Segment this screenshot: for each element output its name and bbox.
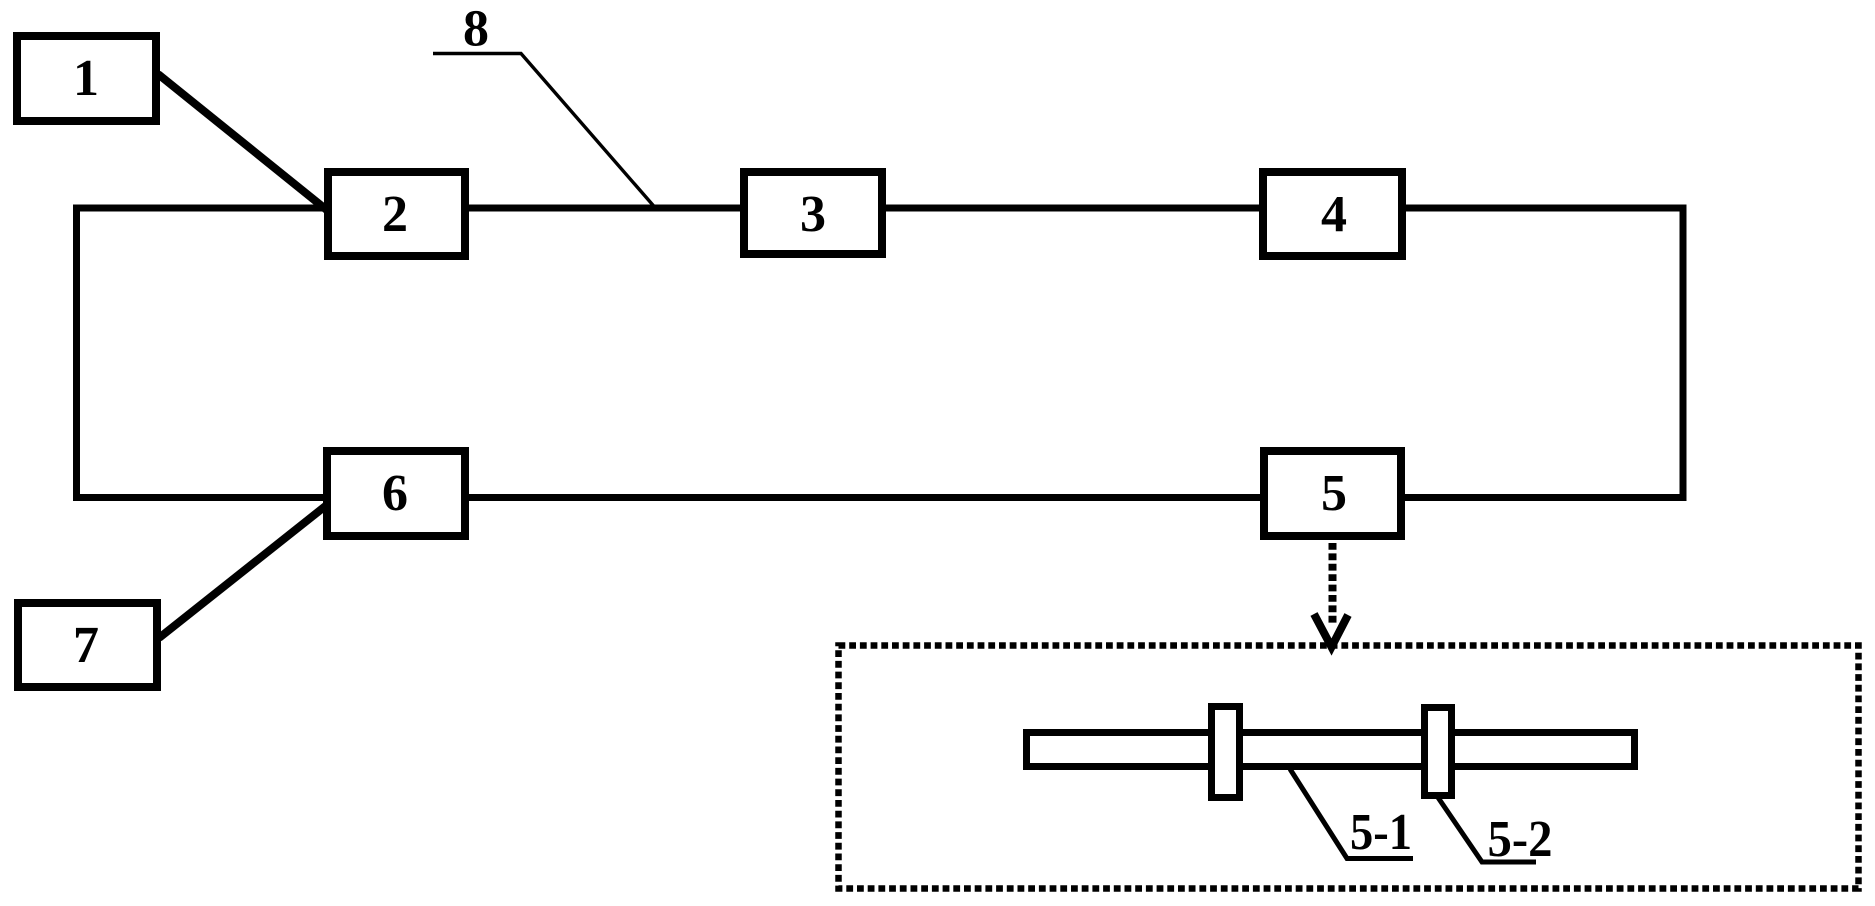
fiber bar: [1027, 733, 1635, 767]
wire main loop (top bus, right vertical, bottom bus, left vertical): [77, 208, 1684, 498]
svg-text:5-1: 5-1: [1350, 804, 1412, 861]
svg-text:5-2: 5-2: [1488, 811, 1553, 868]
leader line for label 8: [433, 54, 655, 208]
block 1: [17, 36, 156, 121]
svg-text:2: 2: [382, 186, 408, 243]
svg-text:5: 5: [1321, 465, 1347, 522]
svg-text:7: 7: [73, 617, 99, 674]
wire leader from block 7 to block 6: [159, 504, 328, 638]
leader line for label 5-1: [1290, 769, 1413, 859]
svg-text:6: 6: [382, 465, 408, 522]
leader line for label 5-2: [1437, 796, 1536, 862]
arrowhead: [1314, 614, 1348, 647]
wire leader from block 1 to block 2: [158, 74, 328, 211]
dotted detail enclosure: [839, 646, 1859, 889]
block 4: [1263, 172, 1402, 256]
block 7: [18, 603, 157, 687]
svg-text:8: 8: [463, 1, 489, 58]
svg-text:1: 1: [73, 50, 99, 107]
svg-text:4: 4: [1321, 186, 1347, 243]
svg-text:3: 3: [800, 186, 826, 243]
grating 5-2: [1425, 708, 1452, 796]
grating 5-1: [1212, 707, 1240, 798]
block 3: [744, 172, 882, 254]
dotted arrow from block 5 down to detail box: [1329, 543, 1337, 624]
block 2: [328, 172, 465, 256]
block 6: [327, 451, 465, 536]
block 5: [1264, 451, 1401, 536]
